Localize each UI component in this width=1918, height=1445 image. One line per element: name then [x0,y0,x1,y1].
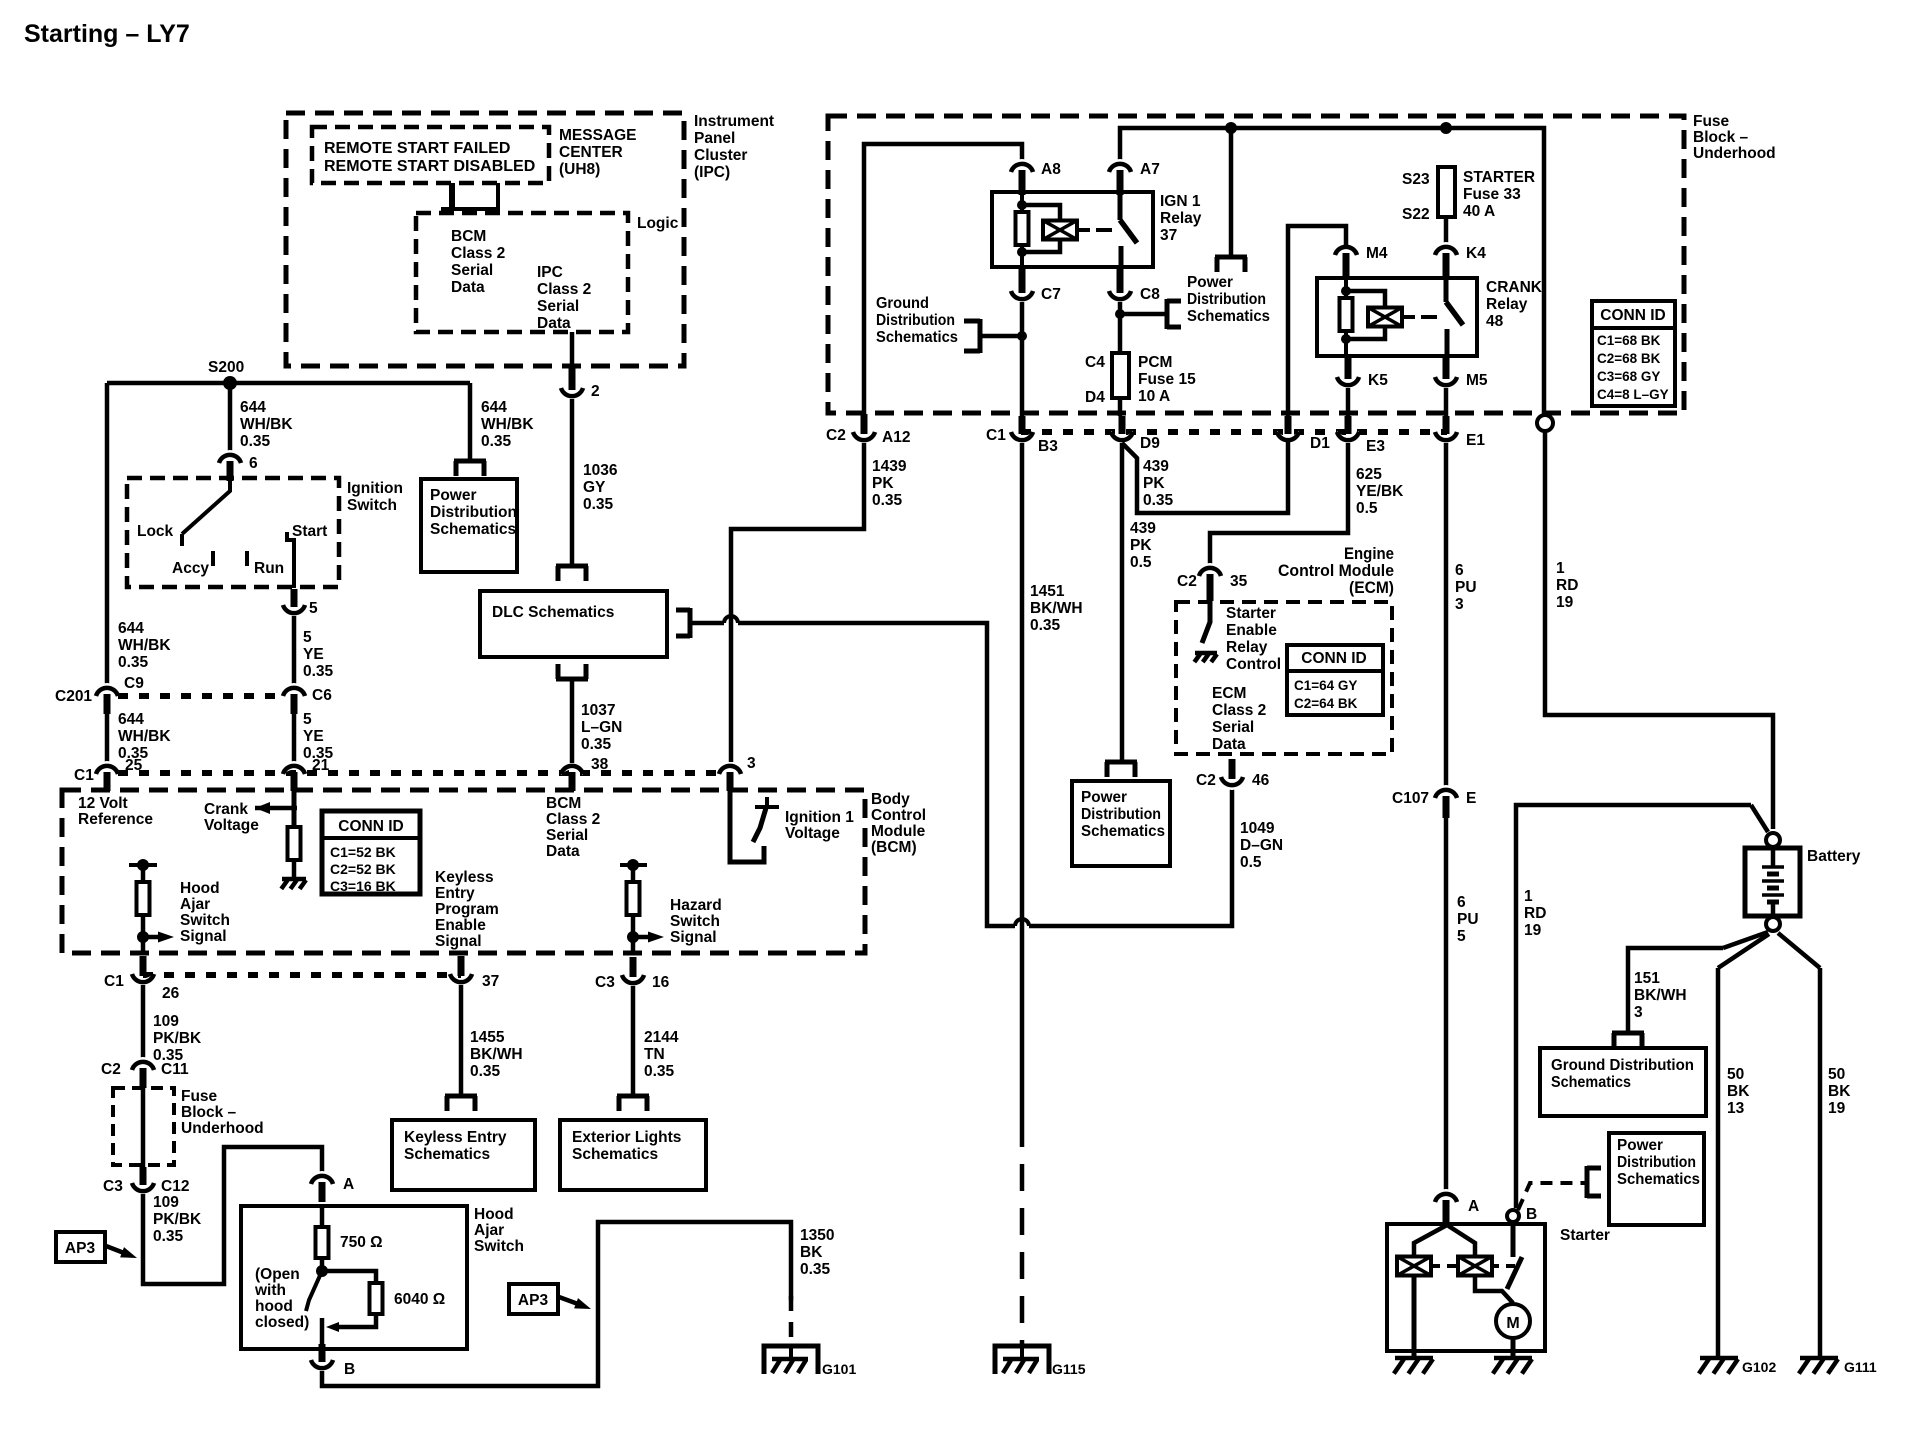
connector BCM pin 37 [450,956,472,987]
CONN ID box (BCM) [322,811,420,894]
label 1 RD 19 (lower) [1524,888,1546,939]
starter box [1387,1224,1545,1351]
wire battery negative to 151 branch diagonal [1723,932,1768,948]
AP3 arrow lead (right) [559,1297,578,1304]
svg-text:C1: C1 [986,427,1006,444]
label C201 [55,688,92,705]
instrument panel cluster (IPC) dashed box [286,113,684,366]
exterior lights schematics box [560,1120,706,1190]
label 6040 ohm [394,1291,445,1308]
svg-text:S22: S22 [1402,206,1430,223]
svg-text:D9: D9 [1140,435,1160,452]
svg-text:G111: G111 [1844,1359,1877,1375]
label Ignition Switch [347,480,403,514]
wire top bus A7 to right edge [1120,128,1544,414]
svg-text:CONN ID: CONN ID [338,818,403,835]
wire 21 into BCM crank circuit [292,790,297,827]
label CONN ID rows (ECM) [1294,678,1358,711]
connector BCM pin 38 [561,761,583,791]
label 625 YE/BK 0.5 [1356,466,1404,517]
CRANK relay box [1317,278,1477,356]
wire A12 feed riser [864,144,1022,414]
label 26 [162,985,180,1002]
wire CRANK coil feed [1344,278,1348,356]
arrow crank voltage (points left) [255,802,270,814]
connector C201 pin C9 [96,683,118,714]
stub starter coil2 right [1492,1264,1499,1268]
svg-text:Logic: Logic [637,215,679,232]
label Engine Control Module (ECM) [1278,545,1394,597]
wire 1036 GY connector 2 to DLC [570,399,575,566]
wire DLC serial data right segment [738,623,1015,926]
label 12 Volt Reference [78,795,153,828]
label K5 [1368,372,1388,389]
wire 50 BK to G102 [1716,968,1721,1357]
svg-text:M5: M5 [1466,372,1488,389]
svg-text:A12: A12 [882,429,910,446]
wire 439 PK jumper D9 to D1 [1122,440,1288,513]
label Logic [637,215,679,232]
label E3 [1366,438,1385,455]
wire 6040 ohm branch bottom [334,1314,376,1327]
wire hood ajar bar to resistor [141,865,146,882]
label B3 [1038,438,1058,455]
AP3 callout box (right) [509,1284,558,1314]
arrow AP3 (right) [574,1298,593,1314]
wire IGN1 coil branch bottom [1022,239,1060,252]
tab to exterior lights schematics [617,1096,649,1111]
wire bus drop to power distribution tab [1229,128,1234,255]
wire 151 BK/WH to ground distribution [1628,948,1723,1031]
label C2 (pin 46) [1196,772,1216,789]
AP3 arrow lead (left) [106,1246,124,1253]
keyless entry schematics box [392,1120,535,1190]
connector row C201 dotted line [118,693,285,699]
hood ajar switch box [241,1206,467,1349]
tab to power distribution schematics (starter B) [1587,1166,1601,1198]
wire to ground distribution tab [982,334,1022,339]
junction hazard top [627,859,639,871]
label 25 [125,757,143,774]
label C2 (A12) [826,427,846,444]
connector row fuse block bottom dotted line [1021,429,1447,435]
svg-text:AP3: AP3 [518,1292,549,1309]
connector BCM pin 21 [283,761,305,791]
motor M (starter) [1496,1304,1530,1338]
tab to keyless entry schematics [445,1096,477,1111]
IGN1 relay switch lower contact [1119,246,1124,268]
wire motor to ground [1511,1338,1516,1357]
wire hazard resistor to pin 16 [631,915,636,954]
connector BCM pin 3 [719,761,741,791]
connector row BCM bottom dotted line [143,972,461,978]
connector row BCM C1 dotted line [118,770,718,776]
logic dashed box [416,213,628,332]
svg-text:K5: K5 [1368,372,1388,389]
tab from DLC schematics (bottom) [556,664,588,679]
terminal circle (fuse block output) [1537,415,1553,431]
wire crank resistor to ground [292,860,297,878]
wire BCM pin 3 hook [730,790,764,862]
label CONN ID rows (BCM) [330,844,396,894]
label 21 [312,757,330,774]
svg-text:C201: C201 [55,688,92,705]
svg-text:A: A [1468,1198,1479,1215]
svg-text:REMOTE START FAILEDREMOTE STAR: REMOTE START FAILEDREMOTE START DISABLED [324,140,535,175]
svg-text:2: 2 [591,383,600,400]
label C11 [161,1061,189,1078]
label 109 PK/BK 0.35 (lower) [153,1194,202,1245]
IGN 1 relay box [992,192,1153,267]
CONN ID box (fuse block) [1592,301,1675,406]
dash starter coil1 to coil2 [1447,1264,1459,1268]
resistor crank voltage [288,827,301,860]
wire 1350 BK from pin B to G101 [322,1222,791,1386]
label K4 [1466,245,1486,262]
battery internal stub bottom [1771,902,1776,916]
wire S200 right drop to power distribution [468,383,473,459]
wire 750 ohm to switch [320,1258,325,1270]
label C12 [161,1178,189,1195]
connector hood ajar pin B [311,1344,333,1373]
svg-text:C9: C9 [124,675,144,692]
starter switch blade [1507,1257,1522,1289]
label Power Distribution Schematics (bottom right) [1617,1137,1700,1188]
ECM starter enable switch blade [1202,601,1210,643]
svg-text:K4: K4 [1466,245,1486,262]
label Exterior Lights Schematics [572,1129,681,1163]
label CONN ID header (BCM) [338,818,403,835]
label 35 [1230,573,1248,590]
label Hood Ajar Switch [474,1206,524,1255]
wire hood ajar signal arrow lead [143,935,162,940]
wire K5 to E3 [1346,388,1351,416]
junction bus at power distribution drop [1225,122,1237,134]
label S22 [1402,206,1430,223]
wire hood ajar top bar [129,863,157,867]
label Starter Enable Relay Control [1226,605,1281,673]
label 750 ohm [340,1234,383,1251]
dash CRANK coil to switch [1421,315,1437,319]
label Instrument Panel Cluster (IPC) [694,113,774,181]
label C2 (pin 35) [1177,573,1197,590]
label B (starter) [1526,1206,1537,1223]
dash IGN1 coil to switch [1096,228,1112,232]
ground starter solenoid [1394,1358,1433,1374]
ground ECM starter enable [1194,653,1217,662]
connector ECM pin 46 (C2) [1221,759,1243,790]
coil CRANK relay [1368,308,1402,327]
wire hood switch bottom contact [320,1318,325,1351]
wire S200 to ignition switch [228,383,233,452]
connector relay pin K4 [1435,242,1457,279]
label C1 (BCM left) [74,767,94,784]
wire crank voltage arrow lead [255,806,297,811]
tab to ground distribution schematics (box) [1612,1033,1644,1048]
svg-text:Starting – LY7: Starting – LY7 [24,20,190,48]
arrow AP3 (left) [120,1247,139,1263]
wire 6040 ohm branch top [322,1271,376,1283]
label Fuse Block - Underhood (main) [1693,113,1776,162]
starter feed split right [1447,1225,1475,1258]
CONN ID header underline (ECM) [1289,669,1381,673]
terminal starter B [1507,1210,1519,1222]
tab to power distribution schematics (C8) [1167,299,1181,329]
starter feed split left [1414,1225,1447,1258]
terminal battery positive [1766,833,1780,847]
label M5 [1466,372,1488,389]
label G115 [1052,1361,1086,1377]
resistor IGN1 relay coil suppressor [1016,212,1029,245]
svg-text:37: 37 [482,973,499,990]
label 644 WH/BK 0.35 (ignition feed) [240,399,293,450]
svg-text:C2: C2 [101,1061,121,1078]
label Fuse Block - Underhood (left) [181,1088,264,1137]
svg-text:G101: G101 [822,1361,856,1377]
label Keyless Entry Program Enable Signal [435,869,499,950]
connector BCM pin 25 [96,761,118,791]
coil starter solenoid pull-in [1397,1257,1431,1276]
wire S200 left drop to C9 [105,383,110,684]
svg-text:26: 26 [162,985,180,1002]
label E1 [1466,432,1485,449]
label C8 [1140,286,1160,303]
svg-text:IgnitionSwitch: IgnitionSwitch [347,480,403,514]
coil starter solenoid hold-in [1458,1257,1492,1276]
svg-text:750 Ω: 750 Ω [340,1234,383,1251]
ground G115 [995,1344,1049,1374]
ignition 1 voltage switch blade [753,808,766,842]
svg-text:HazardSwitchSignal: HazardSwitchSignal [670,897,722,946]
svg-text:Accy: Accy [172,560,209,577]
svg-text:C4: C4 [1085,354,1105,371]
fuse STARTER Fuse 33 [1438,167,1455,217]
dashed link starter B to power distribution [1518,1183,1585,1210]
svg-text:E1: E1 [1466,432,1485,449]
svg-text:Starter: Starter [1560,1227,1610,1244]
label C9 [124,675,144,692]
label 6 PU 5 [1457,894,1479,945]
label A8 [1041,161,1061,178]
body control module (BCM) dashed box [62,790,865,953]
wire 439 PK D9 down to power distribution [1120,443,1125,760]
svg-text:C6: C6 [312,687,332,704]
wire 1 RD fuse block to battery [1545,431,1773,829]
label D1 [1310,435,1330,452]
label 1439 PK 0.35 [872,458,907,509]
label Keyless Entry Schematics [404,1129,507,1163]
wire 109 PK/BK C12 to hood ajar switch [143,1147,322,1284]
resistor 6040 ohm [370,1283,383,1314]
CRANK relay switch lower contact [1445,329,1450,356]
wire logic box to connector 2 [570,332,575,368]
stub CRANK coil to switch [1403,315,1415,319]
wire hazard top bar [620,863,647,867]
label M4 [1366,245,1388,262]
battery plate long 2 [1762,879,1784,883]
wire M5 to E1 [1444,388,1449,416]
svg-text:C12: C12 [161,1178,189,1195]
connector C3/C12 (fuse block) [132,1167,154,1196]
connector C2/C11 (fuse block) [132,1057,154,1088]
ground G102 [1699,1358,1738,1374]
arrow hood ajar switch signal [158,932,174,943]
label A (hood ajar) [343,1176,354,1193]
label 1 RD 19 (upper) [1556,560,1578,611]
label 644 WH/BK 0.35 (below C201) [118,711,171,762]
wire CRANK coil branch top [1346,291,1385,308]
label DLC Schematics [492,604,614,621]
label 1036 GY 0.35 [583,462,618,513]
svg-text:S23: S23 [1402,171,1430,188]
svg-text:D4: D4 [1085,389,1105,406]
connector E3 [1337,416,1359,445]
battery plate short 2 [1767,886,1779,891]
junction CRANK coil bottom [1341,334,1351,344]
connector BCM pin 26 (C1) [132,956,154,987]
label C4 (PCM fuse) [1085,354,1105,371]
svg-text:A8: A8 [1041,161,1061,178]
label CONN ID header (ECM) [1301,650,1366,667]
svg-text:C2: C2 [1196,772,1216,789]
svg-text:AP3: AP3 [65,1240,96,1257]
AP3 callout box (left) [56,1232,105,1262]
label CONN ID rows (fuse block) [1597,333,1669,402]
tab from DLC schematics (right) [676,608,690,638]
connector relay pin A8 [1011,159,1033,195]
connector relay pin C7 [1011,269,1033,304]
label Ground Distribution Schematics (ref) [876,295,958,346]
wire 625 YE/BK E3 to ECM 35 [1210,443,1348,566]
junction IGN1 coil bottom [1017,247,1027,257]
IGN1 relay switch fixed side [1118,190,1123,220]
label Power Distribution Schematics (upper) [430,487,517,538]
label PCM Fuse 15 10 A [1138,354,1196,405]
label 46 [1252,772,1270,789]
label C3 (pin C12) [103,1178,123,1195]
svg-text:C2: C2 [826,427,846,444]
stub starter coil2 left [1450,1265,1458,1267]
svg-text:C3: C3 [103,1178,123,1195]
label C2 (fuse block) [101,1061,121,1078]
message center dashed box [312,127,549,183]
svg-text:Run: Run [254,560,284,577]
svg-text:C1: C1 [74,767,94,784]
label G102 [1742,1359,1776,1375]
connector relay pin M5 [1435,355,1457,390]
starter solenoid coil 2 to motor [1475,1275,1513,1303]
svg-text:E: E [1466,790,1476,807]
svg-text:5: 5 [309,600,318,617]
label 439 PK 0.35 (jumper) [1143,458,1174,509]
ignition switch Run contact tick [245,551,249,566]
wire 109 PK/BK pin 26 to C11 [141,985,146,1058]
svg-text:E3: E3 [1366,438,1385,455]
label Ignition 1 Voltage [785,809,854,842]
label 16 [652,974,670,991]
tab to power distribution schematics (fuse block) [1215,257,1247,272]
svg-text:46: 46 [1252,772,1270,789]
label A (starter) [1468,1198,1479,1215]
label REMOTE START FAILED / DISABLED [324,140,535,175]
svg-text:C3: C3 [595,974,615,991]
svg-text:C8: C8 [1140,286,1160,303]
wire 1455 BK/WH pin 37 down [459,985,464,1094]
tab to power distribution schematics [454,461,486,476]
label D9 [1140,435,1160,452]
connector relay pin A7 [1109,159,1131,195]
wire 1451 BK/WH dashed to G115 [1020,1120,1025,1345]
stub starter coil1 right [1431,1264,1440,1268]
label Body Control Module (BCM) [871,791,926,856]
wire C7 to B3 [1020,302,1025,416]
wire 1451 BK/WH B3 down [1020,443,1025,1120]
tab to DLC schematics (top) [556,566,588,581]
label 1350 BK 0.35 [800,1227,834,1278]
svg-text:Lock: Lock [137,523,174,540]
wire battery negative to G102 diagonal [1718,934,1769,968]
label Power Distribution Schematics (fuse block) [1187,274,1270,325]
svg-text:B3: B3 [1038,438,1058,455]
label Ground Distribution Schematics (box) [1551,1057,1694,1091]
label 1037 L-GN 0.35 [581,702,622,753]
svg-text:Battery: Battery [1807,848,1861,865]
arrow hood switch lower contact [326,1322,339,1332]
svg-text:A7: A7 [1140,161,1160,178]
wire CRANK coil branch bottom [1346,326,1385,339]
wire 644 WH/BK C9 to BCM 25 [105,712,110,764]
junction IGN1 coil top [1017,200,1027,210]
wire 6 PU E1 to C107 [1444,443,1449,788]
ignition switch lever [182,481,230,534]
ignition 1 voltage contact bar [755,805,779,809]
label 50 BK 13 [1727,1066,1750,1117]
label 1451 BK/WH 0.35 [1030,583,1083,634]
arrow hazard switch signal [648,932,664,943]
dash starter coil2 to switch [1506,1264,1515,1268]
wire S200 bus [107,381,470,386]
label 151 BK/WH 3 [1634,970,1687,1021]
label C1 (B3) [986,427,1006,444]
label G111 [1844,1359,1877,1375]
label E (C107) [1466,790,1476,807]
svg-text:CONN ID: CONN ID [1600,307,1665,324]
junction hazard signal [627,931,639,943]
engine control module dashed box [1176,602,1392,754]
svg-text:B: B [344,1361,355,1378]
label Accy [172,560,209,577]
power distribution schematics box (bottom mid) [1072,781,1170,866]
title Starting - LY7 [24,20,190,48]
label 439 PK 0.5 [1130,520,1156,571]
label Start [292,523,327,540]
fuse PCM Fuse 15 [1112,353,1129,398]
label AP3 (right) [518,1292,549,1309]
svg-text:Start: Start [292,523,327,540]
label Starter [1560,1227,1610,1244]
CONN ID header underline (BCM) [324,836,418,840]
label 1049 D-GN 0.5 [1240,820,1283,871]
wire PCM fuse to D9 [1118,398,1123,416]
wire to power distribution tab (C8) [1120,312,1167,317]
label BCM Class 2 Serial Data (IPC logic) [451,228,505,296]
svg-text:CONN ID: CONN ID [1301,650,1366,667]
battery plate short 1 [1767,872,1779,877]
connector hood ajar pin A [311,1171,333,1202]
label A7 [1140,161,1160,178]
label C6 [312,687,332,704]
svg-text:C1=52 BKC2=52 BKC3=16 BK: C1=52 BKC2=52 BKC3=16 BK [330,844,396,894]
